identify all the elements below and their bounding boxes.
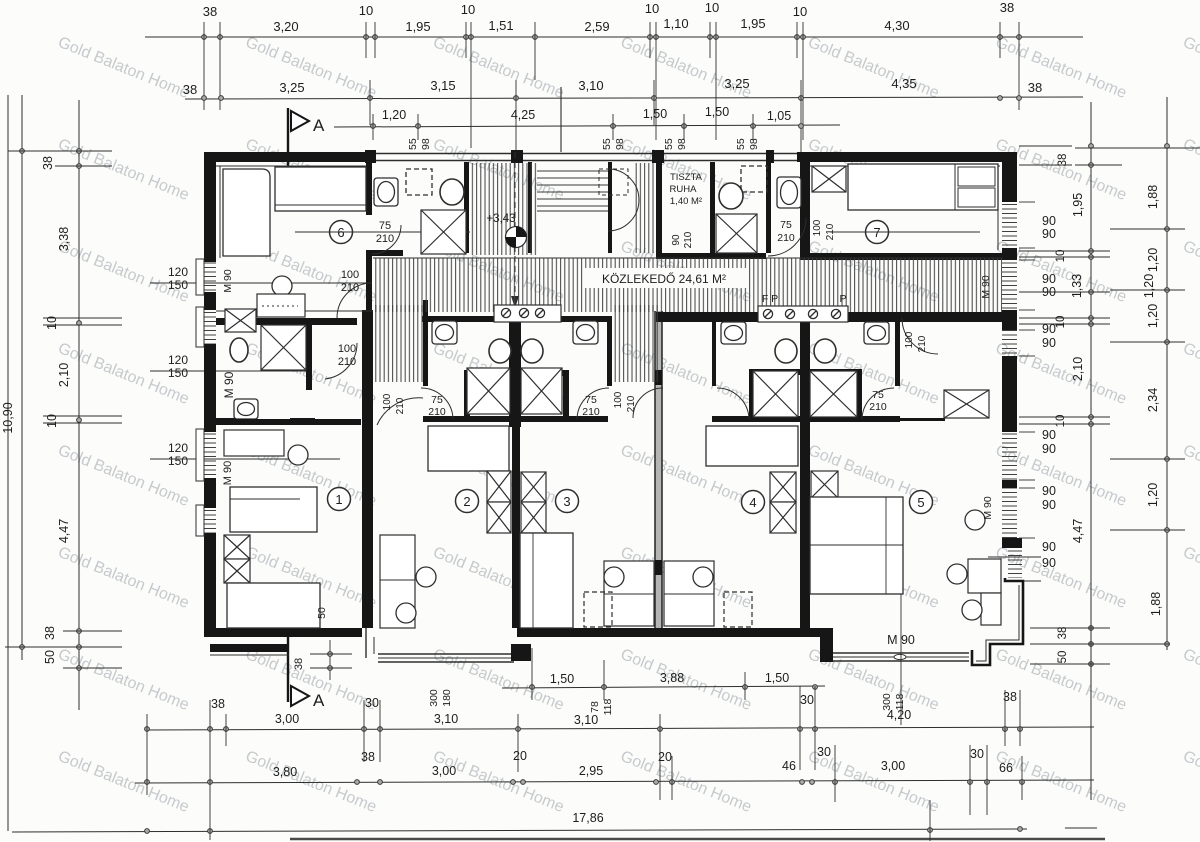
bath 2 sink xyxy=(432,321,457,344)
bottom porch wall left xyxy=(210,644,289,652)
svg-text:4,47: 4,47 xyxy=(1071,519,1085,543)
bath 3 shower xyxy=(521,368,562,414)
wc shower xyxy=(716,214,757,253)
svg-text:3,88: 3,88 xyxy=(660,671,684,685)
svg-text:50: 50 xyxy=(43,650,57,664)
svg-text:1,20: 1,20 xyxy=(1146,248,1160,272)
svg-text:1,20: 1,20 xyxy=(1146,483,1160,507)
svg-text:98: 98 xyxy=(748,138,760,150)
room 3 table xyxy=(604,561,654,626)
bottom sub dimension line y=687 xyxy=(502,686,825,688)
svg-text:120: 120 xyxy=(168,441,188,455)
bottom dimension row B2 y=782 xyxy=(135,780,1094,783)
room 6 door arc xyxy=(337,283,372,318)
svg-text:3,00: 3,00 xyxy=(881,759,905,773)
bath 5 door arc xyxy=(862,388,894,419)
level mark +3,43 xyxy=(506,227,527,248)
room 7 wardrobe xyxy=(812,166,846,192)
stair upper flight treads xyxy=(537,165,608,211)
svg-text:10: 10 xyxy=(359,3,373,18)
top wall window band 1 xyxy=(371,153,511,155)
top row 1 labels xyxy=(203,0,1014,34)
svg-text:75: 75 xyxy=(780,219,792,231)
stair walk line xyxy=(514,152,516,228)
svg-text:1: 1 xyxy=(335,492,342,507)
svg-text:210: 210 xyxy=(428,406,446,418)
svg-text:90: 90 xyxy=(1042,322,1056,336)
svg-text:38: 38 xyxy=(293,658,305,670)
outer top wall xyxy=(205,152,371,162)
svg-text:38: 38 xyxy=(1028,80,1042,95)
svg-text:50: 50 xyxy=(1057,651,1069,664)
svg-text:2,34: 2,34 xyxy=(1146,388,1160,412)
corridor hatch left part below room6 xyxy=(216,310,312,312)
svg-text:55: 55 xyxy=(601,138,613,150)
svg-text:4,30: 4,30 xyxy=(884,18,909,33)
svg-text:90: 90 xyxy=(1042,484,1056,498)
room 6 circle xyxy=(330,221,353,244)
hall strip between rooms 1/2 xyxy=(373,305,423,382)
svg-text:10: 10 xyxy=(1055,415,1067,428)
wall junction T xyxy=(511,150,523,163)
svg-text:10: 10 xyxy=(45,316,59,330)
svg-text:118: 118 xyxy=(602,698,614,715)
svg-text:90: 90 xyxy=(1042,442,1056,456)
svg-text:3,00: 3,00 xyxy=(432,764,456,778)
wall bath3 right xyxy=(607,316,612,386)
svg-text:90: 90 xyxy=(1042,498,1056,512)
svg-text:38: 38 xyxy=(211,697,225,711)
corridor label KOZLEKEDO xyxy=(583,268,748,288)
svg-text:10: 10 xyxy=(1055,250,1067,263)
svg-text:2: 2 xyxy=(463,494,470,509)
svg-text:1,95: 1,95 xyxy=(740,16,765,31)
svg-text:10: 10 xyxy=(645,1,659,16)
svg-text:5: 5 xyxy=(917,495,924,510)
svg-text:120: 120 xyxy=(168,265,188,279)
bath 6 washer (dashed) xyxy=(406,169,432,195)
left dimension column lines xyxy=(21,95,23,660)
bathroom bottom walls xyxy=(216,418,252,425)
svg-text:300: 300 xyxy=(428,689,440,707)
bath 5 sink xyxy=(864,322,889,344)
svg-text:10: 10 xyxy=(461,2,475,17)
svg-text:150: 150 xyxy=(168,278,188,292)
svg-text:F P: F P xyxy=(762,293,778,305)
dashed stair opening xyxy=(599,169,628,195)
svg-text:1,20: 1,20 xyxy=(1146,304,1160,328)
svg-text:3,25: 3,25 xyxy=(724,76,749,91)
svg-text:2,10: 2,10 xyxy=(57,363,71,387)
svg-text:38: 38 xyxy=(1057,154,1069,167)
bath 1 bottom wall xyxy=(216,419,361,425)
room 4 circle xyxy=(742,491,765,514)
bottom edge artifact xyxy=(290,838,1105,840)
svg-text:1,50: 1,50 xyxy=(765,671,789,685)
room 5 chair xyxy=(965,510,985,530)
svg-text:30: 30 xyxy=(817,745,831,759)
svg-text:3,38: 3,38 xyxy=(57,227,71,251)
svg-text:1,33: 1,33 xyxy=(1070,274,1084,298)
svg-text:10,90: 10,90 xyxy=(1,402,15,433)
bath 4 shower xyxy=(753,371,798,417)
svg-text:1,50: 1,50 xyxy=(643,107,667,121)
room 4 table xyxy=(664,561,714,626)
svg-text:150: 150 xyxy=(168,366,188,380)
svg-text:4,47: 4,47 xyxy=(57,519,71,543)
wall junction T xyxy=(365,150,376,163)
bath 2 door arc xyxy=(421,388,453,419)
svg-text:100: 100 xyxy=(613,391,624,408)
top wall window band 3 xyxy=(664,153,797,155)
bath 2 shower xyxy=(467,368,510,414)
room 7 bed xyxy=(848,164,998,210)
svg-text:98: 98 xyxy=(676,138,688,150)
svg-text:17,86: 17,86 xyxy=(572,811,603,825)
svg-text:M 90: M 90 xyxy=(222,461,234,485)
svg-text:100: 100 xyxy=(341,269,359,281)
svg-text:1,50: 1,50 xyxy=(705,105,729,119)
svg-text:1,95: 1,95 xyxy=(405,19,430,34)
svg-text:3,10: 3,10 xyxy=(574,713,598,727)
svg-text:38: 38 xyxy=(41,156,55,170)
svg-text:75: 75 xyxy=(379,220,391,232)
bath 4 door arc xyxy=(717,388,749,419)
dimension line top row 1 xyxy=(145,36,1083,38)
room 3 circle xyxy=(556,490,579,513)
room 5 entry wardrobe xyxy=(944,390,989,418)
svg-text:10: 10 xyxy=(793,4,807,19)
svg-text:38: 38 xyxy=(1057,627,1069,640)
entry sill left xyxy=(494,305,561,322)
bottom-right stepped corner xyxy=(972,578,1023,665)
room 1 chair xyxy=(288,445,308,465)
bottom wall room1 xyxy=(204,628,362,637)
section marker A (bottom) xyxy=(287,628,289,702)
right dimension column x=1091 xyxy=(1090,102,1092,800)
room 5 bed xyxy=(810,497,903,594)
svg-text:210: 210 xyxy=(869,401,887,413)
room 2 circle xyxy=(456,490,479,513)
bath 1 sink xyxy=(234,399,258,419)
svg-text:38: 38 xyxy=(361,750,375,764)
room7 left wall xyxy=(800,152,810,260)
wc washer dashed xyxy=(741,166,767,192)
entrance recess left: sill xyxy=(365,628,367,658)
svg-text:98: 98 xyxy=(420,138,432,150)
hall strip between rooms 3/4 xyxy=(612,305,658,382)
svg-text:3,10: 3,10 xyxy=(434,712,458,726)
hatch right of stair arc xyxy=(635,163,656,253)
room 3 dashed unit xyxy=(584,592,612,627)
svg-text:75: 75 xyxy=(431,394,443,406)
svg-text:30: 30 xyxy=(365,696,379,710)
svg-text:46: 46 xyxy=(782,759,796,773)
svg-text:1,51: 1,51 xyxy=(488,18,513,33)
wall bath1 right xyxy=(306,325,312,390)
svg-text:38: 38 xyxy=(203,4,217,19)
svg-text:75: 75 xyxy=(585,394,597,406)
bath 1 shower xyxy=(261,325,306,370)
svg-text:90: 90 xyxy=(1042,214,1056,228)
party wall rooms 3/4 xyxy=(655,311,662,628)
bath 4 sink xyxy=(721,322,746,344)
room 3 bed xyxy=(520,533,573,628)
room 3 chairs xyxy=(604,567,624,587)
stair left rail xyxy=(528,162,532,253)
svg-text:210: 210 xyxy=(341,282,359,294)
room 5 entry door arc xyxy=(902,318,938,354)
top row 3 labels xyxy=(382,105,791,123)
svg-text:210: 210 xyxy=(338,356,356,368)
corridor top wall under closets xyxy=(656,253,766,259)
bath 1 toilet xyxy=(230,338,248,362)
svg-text:3,15: 3,15 xyxy=(430,78,455,93)
svg-text:2,95: 2,95 xyxy=(579,764,603,778)
svg-text:RUHA: RUHA xyxy=(670,184,698,195)
svg-text:TISZTA: TISZTA xyxy=(670,172,703,183)
svg-text:66: 66 xyxy=(999,761,1013,775)
corridor hatch xyxy=(373,258,1002,312)
sink nook sink xyxy=(777,177,801,208)
bath 3 sink xyxy=(573,321,598,344)
svg-text:1,40 M²: 1,40 M² xyxy=(670,196,702,207)
svg-text:90: 90 xyxy=(1042,285,1056,299)
svg-text:P: P xyxy=(839,293,846,305)
bath 1 wardrobe xyxy=(225,309,256,332)
svg-text:A: A xyxy=(313,691,325,710)
svg-text:10: 10 xyxy=(705,0,719,15)
svg-text:1,20: 1,20 xyxy=(1142,274,1156,298)
party wall rooms 4/5 xyxy=(800,311,810,628)
wall junction T xyxy=(766,150,774,163)
bottom wall rooms 2-4 xyxy=(517,628,820,637)
svg-text:38: 38 xyxy=(1000,0,1014,15)
wall room6 right xyxy=(366,162,372,215)
svg-text:1,20: 1,20 xyxy=(382,108,406,122)
svg-text:210: 210 xyxy=(395,397,406,414)
svg-text:1,05: 1,05 xyxy=(767,109,791,123)
room 2 wardrobe xyxy=(487,471,511,502)
svg-text:KÖZLEKEDŐ 24,61 M²: KÖZLEKEDŐ 24,61 M² xyxy=(602,271,726,286)
svg-text:30: 30 xyxy=(800,693,814,707)
bath 3 toilet xyxy=(521,339,543,363)
left overall dimension line 10,90 xyxy=(7,95,9,831)
room 1 desk xyxy=(224,430,284,456)
svg-text:1,50: 1,50 xyxy=(550,672,574,686)
svg-text:38: 38 xyxy=(43,626,57,640)
dimension line top row 3 xyxy=(334,125,840,127)
svg-text:4,20: 4,20 xyxy=(887,708,911,722)
room 7 circle xyxy=(866,221,889,244)
svg-text:1,88: 1,88 xyxy=(1149,592,1163,616)
bath 6 shower xyxy=(421,210,466,254)
room 2 desk xyxy=(380,535,415,628)
entry sill right xyxy=(758,306,848,322)
bath 5 toilet xyxy=(814,339,836,363)
svg-text:210: 210 xyxy=(917,335,928,352)
room 3 wardrobe xyxy=(521,472,546,502)
room 6 couch (left, vertical) xyxy=(223,169,270,256)
party wall rooms 2/3 upper xyxy=(509,311,521,427)
svg-text:90: 90 xyxy=(671,234,682,246)
inner face lines xyxy=(216,165,366,167)
svg-text:M 90: M 90 xyxy=(980,275,992,299)
stair right rail xyxy=(608,162,612,253)
room 5 circle xyxy=(910,491,933,514)
stair upper rail extension xyxy=(560,87,562,152)
room 1 bed 2 xyxy=(227,583,320,628)
bath 1 door arc xyxy=(325,343,357,379)
room 6 table xyxy=(257,294,305,317)
bath 5 shower xyxy=(810,371,857,417)
top wall window band 2 xyxy=(523,153,652,155)
svg-text:210: 210 xyxy=(683,231,694,248)
svg-text:1,88: 1,88 xyxy=(1146,185,1160,209)
svg-text:1,95: 1,95 xyxy=(1071,193,1085,217)
svg-text:100: 100 xyxy=(904,331,915,348)
svg-text:55: 55 xyxy=(663,138,675,150)
svg-text:90: 90 xyxy=(1042,556,1056,570)
outer right wall xyxy=(1002,152,1017,202)
party wall rooms 2/3 lower xyxy=(512,427,520,628)
wall wc/sink xyxy=(766,162,771,253)
svg-text:M 90: M 90 xyxy=(222,371,236,398)
shower stall walls baths 2/3 xyxy=(466,370,567,376)
svg-text:M 90: M 90 xyxy=(982,496,994,520)
svg-text:6: 6 xyxy=(337,225,344,240)
svg-text:210: 210 xyxy=(825,223,836,240)
room 5 wardrobe xyxy=(811,471,838,498)
svg-text:210: 210 xyxy=(376,233,394,245)
svg-text:210: 210 xyxy=(777,232,795,244)
svg-text:100: 100 xyxy=(382,393,393,410)
post at entrance xyxy=(511,644,531,661)
wall bath2 left xyxy=(423,300,428,386)
rotated jamb labels 55/98 xyxy=(407,138,760,150)
svg-text:30: 30 xyxy=(970,747,984,761)
svg-text:3,00: 3,00 xyxy=(275,712,299,726)
svg-text:90: 90 xyxy=(1042,336,1056,350)
room6 bottom wall / bath1 top wall xyxy=(216,318,357,325)
svg-text:150: 150 xyxy=(168,454,188,468)
bath 6 door arc xyxy=(372,225,401,254)
bottom vertical stub lines xyxy=(146,714,148,795)
svg-text:90: 90 xyxy=(1042,428,1056,442)
svg-text:100: 100 xyxy=(812,219,823,236)
wall closet/wc xyxy=(710,162,715,253)
svg-text:4: 4 xyxy=(749,495,756,510)
svg-text:38: 38 xyxy=(183,82,197,97)
bath 6 toilet xyxy=(440,179,464,205)
right wall windows xyxy=(1002,202,1017,248)
svg-text:2,59: 2,59 xyxy=(584,19,609,34)
bath 3 door arc xyxy=(577,388,609,419)
room 1 wardrobe xyxy=(224,535,250,559)
svg-text:50: 50 xyxy=(316,607,328,619)
svg-text:90: 90 xyxy=(1042,227,1056,241)
corridor bottom walls xyxy=(422,316,608,322)
svg-text:20: 20 xyxy=(513,749,527,763)
svg-text:3: 3 xyxy=(563,494,570,509)
room 2 bed xyxy=(428,426,509,471)
shower stall walls baths 4/5 xyxy=(749,369,862,375)
svg-text:210: 210 xyxy=(582,406,600,418)
room 4 wardrobe xyxy=(770,472,796,502)
outer top wall right section xyxy=(797,152,1017,162)
dimension line top row 2 xyxy=(185,97,1083,99)
svg-text:1,10: 1,10 xyxy=(663,16,688,31)
svg-text:100: 100 xyxy=(338,343,356,355)
bath 4 toilet xyxy=(775,339,797,363)
room 2 chairs xyxy=(416,567,436,587)
svg-text:4,25: 4,25 xyxy=(511,108,535,122)
svg-text:10: 10 xyxy=(45,414,59,428)
wall bath5 right xyxy=(895,316,900,386)
room 6 bed (top) xyxy=(275,167,366,211)
hall 3/4 door arcs xyxy=(633,388,663,418)
svg-text:7: 7 xyxy=(873,225,880,240)
closet left wall xyxy=(656,162,662,253)
stair door arc xyxy=(608,169,639,231)
svg-text:180: 180 xyxy=(441,689,453,707)
svg-text:2,10: 2,10 xyxy=(1071,357,1085,381)
svg-text:55: 55 xyxy=(407,138,419,150)
svg-text:90: 90 xyxy=(1042,272,1056,286)
top row 2 labels xyxy=(183,76,1042,97)
hall 1/2 door arc into room2 xyxy=(377,398,423,425)
wall room1/room2 xyxy=(362,310,373,628)
svg-text:3,25: 3,25 xyxy=(279,80,304,95)
svg-text:3,20: 3,20 xyxy=(273,19,298,34)
bottom dimension row B1 y=729 xyxy=(145,727,1094,730)
svg-text:+3,43: +3,43 xyxy=(486,213,515,225)
wall bath6 right / landing xyxy=(464,162,469,253)
hatched stair flight (vertical treads) xyxy=(471,163,537,255)
bath6 bottom wall xyxy=(366,250,403,256)
svg-text:A: A xyxy=(313,116,325,135)
room 5 table xyxy=(968,559,1001,593)
room 4 dashed unit xyxy=(724,592,752,627)
svg-text:3,10: 3,10 xyxy=(578,78,603,93)
svg-text:4,35: 4,35 xyxy=(891,76,916,91)
room 4 chairs xyxy=(693,567,713,587)
bottom overall dimension row B3 y=831 xyxy=(12,829,1027,832)
svg-text:90: 90 xyxy=(1042,540,1056,554)
room 7 door arc xyxy=(768,218,806,256)
svg-text:M 90: M 90 xyxy=(222,269,234,293)
svg-text:210: 210 xyxy=(626,395,637,412)
left wall windows xyxy=(204,262,216,292)
entrance recess right: sill M90 xyxy=(820,628,833,662)
svg-text:78: 78 xyxy=(589,701,601,713)
room 4 bed xyxy=(706,426,798,466)
bath 6 sink xyxy=(374,178,398,206)
section marker A (top) xyxy=(291,111,309,131)
wall bath4 left xyxy=(712,316,716,386)
svg-text:55: 55 xyxy=(735,138,747,150)
room 1 circle xyxy=(328,488,351,511)
wc toilet xyxy=(719,183,743,209)
wall junction T xyxy=(652,150,664,163)
room 5 chairs xyxy=(947,564,967,584)
outer left wall xyxy=(204,152,216,262)
svg-text:10: 10 xyxy=(1055,316,1067,329)
right dimension column x=1167 xyxy=(1166,97,1168,650)
svg-text:120: 120 xyxy=(168,353,188,367)
svg-text:3,80: 3,80 xyxy=(273,765,297,779)
bath 2 toilet xyxy=(489,339,511,363)
